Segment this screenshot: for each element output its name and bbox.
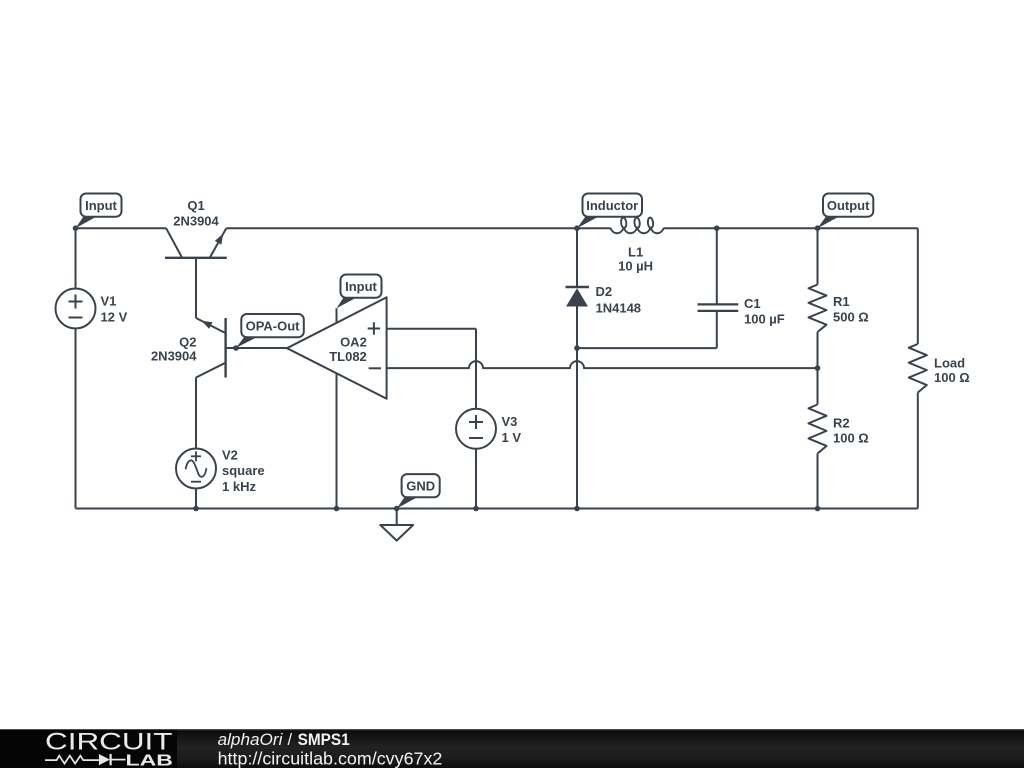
svg-text:L1: L1 — [628, 245, 643, 260]
svg-text:100 Ω: 100 Ω — [833, 430, 869, 445]
svg-text:C1: C1 — [744, 296, 761, 311]
svg-text:CIRCUIT: CIRCUIT — [45, 728, 173, 755]
svg-text:2N3904: 2N3904 — [173, 213, 219, 228]
svg-text:GND: GND — [406, 479, 435, 494]
svg-text:V2: V2 — [222, 448, 238, 463]
svg-text:TL082: TL082 — [329, 349, 367, 364]
svg-text:OA2: OA2 — [340, 335, 367, 350]
svg-text:alphaOri: alphaOri — [218, 731, 284, 749]
svg-text:1 V: 1 V — [502, 430, 522, 445]
svg-text:V1: V1 — [101, 294, 117, 309]
svg-text:12 V: 12 V — [101, 309, 128, 324]
svg-text:Q2: Q2 — [179, 334, 196, 349]
svg-text:100 µF: 100 µF — [744, 311, 785, 326]
svg-text:R1: R1 — [833, 294, 850, 309]
svg-text:OPA-Out: OPA-Out — [246, 319, 301, 334]
svg-text:Load: Load — [934, 355, 965, 370]
svg-text:Q1: Q1 — [187, 198, 204, 213]
svg-text:D2: D2 — [596, 284, 613, 299]
svg-text:Inductor: Inductor — [586, 198, 638, 213]
svg-text:Input: Input — [85, 198, 117, 213]
svg-text:http://circuitlab.com/cvy67x2: http://circuitlab.com/cvy67x2 — [218, 748, 443, 768]
svg-text:LAB: LAB — [126, 752, 173, 768]
svg-text:1 kHz: 1 kHz — [222, 479, 256, 494]
svg-text:1N4148: 1N4148 — [596, 301, 642, 316]
svg-text:SMPS1: SMPS1 — [298, 731, 350, 749]
svg-text:Input: Input — [345, 279, 377, 294]
svg-text:500 Ω: 500 Ω — [833, 309, 869, 324]
svg-text:V3: V3 — [502, 414, 518, 429]
svg-text:/: / — [288, 731, 293, 749]
svg-text:R2: R2 — [833, 415, 850, 430]
svg-text:100 Ω: 100 Ω — [934, 370, 970, 385]
svg-text:Output: Output — [827, 198, 870, 213]
svg-text:10 µH: 10 µH — [618, 259, 653, 274]
svg-text:2N3904: 2N3904 — [151, 348, 197, 363]
svg-text:square: square — [222, 463, 265, 478]
